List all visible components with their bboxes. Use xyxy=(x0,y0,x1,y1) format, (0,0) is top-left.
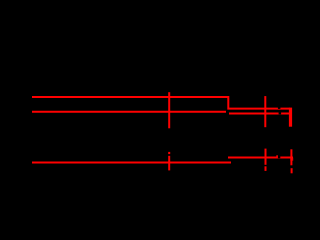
terminal drop bar upper group at right edge xyxy=(289,108,292,127)
black notch cutting upper right line B2 at x=279 xyxy=(279,112,282,114)
censor tick lower group at x=291.4 xyxy=(290,149,292,165)
upper survival curve A (upper CI bound), level 1 with step down at x=228 xyxy=(32,97,290,109)
black notch cutting top of upper right line H2 at x=278 xyxy=(278,106,281,109)
black notch cutting lower right curve C2 at x=278 xyxy=(278,155,280,158)
small red bump above lower-right curve at x=277 xyxy=(276,155,278,156)
censor tick upper group at x=265 xyxy=(264,96,266,127)
censor tick lower group at x=169 xyxy=(168,156,170,171)
upper survival curve B, right segment after step xyxy=(229,113,290,115)
detached censor dot above lower tick at x=169 xyxy=(168,152,170,154)
terminal step blob of lower-right curve end xyxy=(290,158,293,161)
detached censor segment below lower tick at x=265.5 xyxy=(265,166,267,171)
detached censor segment below lower tick at x=291.4 xyxy=(291,168,293,173)
lower survival curve C, left segment xyxy=(32,162,231,164)
lower survival curve C, right segment after step up xyxy=(228,157,293,159)
upper survival curve B (estimate), left segment xyxy=(32,111,226,113)
censor tick upper group at x=169 xyxy=(168,92,170,128)
censor tick lower group at x=265.5 xyxy=(265,149,267,165)
